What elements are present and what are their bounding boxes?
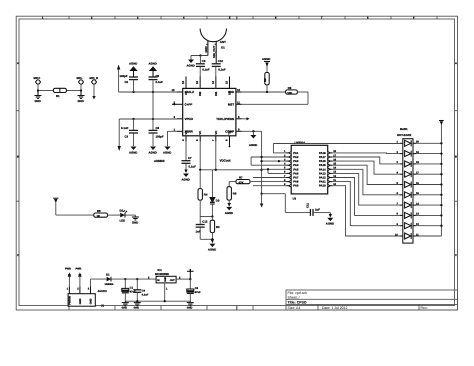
svg-text:IN2: IN2 bbox=[198, 91, 202, 96]
regulator VC1 body bbox=[156, 276, 176, 283]
junction VDCout bus bbox=[260, 169, 262, 171]
connector J1 JACK3 body bbox=[68, 294, 95, 307]
svg-text:GND: GND bbox=[79, 298, 82, 304]
antenna U1 body arc bbox=[200, 29, 226, 42]
IC U2 left pin stubs bbox=[172, 92, 183, 131]
power flag down under P3 bbox=[92, 84, 95, 99]
svg-text:C+PF: C+PF bbox=[185, 103, 193, 107]
BAR1 left pin stubs bbox=[400, 143, 403, 236]
svg-text:1uF: 1uF bbox=[315, 208, 320, 212]
capacitor C3 bbox=[121, 119, 138, 146]
svg-text:Sheet: /: Sheet: / bbox=[288, 296, 300, 300]
VC1 gnd pin wire bbox=[164, 283, 166, 301]
svg-text:PWR: PWR bbox=[76, 267, 82, 270]
capacitor C10 bbox=[212, 59, 226, 89]
svg-text:VDCout: VDCout bbox=[220, 159, 231, 163]
svg-text:AGND: AGND bbox=[163, 151, 171, 155]
svg-text:MIC+: MIC+ bbox=[34, 76, 41, 80]
ground GND under C1 bbox=[122, 301, 129, 305]
svg-text:R7: R7 bbox=[239, 176, 243, 180]
junction COMP ground drop bbox=[252, 130, 254, 132]
IC U2 body bbox=[183, 88, 236, 135]
svg-text:ANT: ANT bbox=[220, 40, 226, 44]
capacitor C11 bbox=[306, 203, 321, 216]
svg-text:C9: C9 bbox=[202, 59, 206, 63]
junction R3 bottom bbox=[211, 238, 213, 240]
svg-text:SIG_OUT: SIG_OUT bbox=[212, 45, 216, 58]
IC U2 pin names right bbox=[216, 90, 235, 133]
resistor R7 bbox=[229, 176, 250, 185]
IC U2 right pin stubs bbox=[236, 92, 242, 131]
svg-text:JACK3: JACK3 bbox=[98, 289, 108, 293]
junction C2 column bbox=[132, 91, 134, 93]
svg-text:R8: R8 bbox=[263, 78, 267, 82]
svg-text:0.1uF: 0.1uF bbox=[202, 68, 210, 72]
J1 pin numbers bbox=[67, 288, 90, 291]
IC U2 top pin numbers bbox=[181, 80, 229, 84]
svg-text:VS: VS bbox=[184, 131, 188, 135]
IC U3 body bbox=[291, 145, 328, 194]
sheet frame outer border bbox=[16, 16, 457, 310]
BAR1 right pin stubs bbox=[413, 143, 416, 236]
svg-text:PA9: PA9 bbox=[293, 184, 299, 188]
no-connect mark pin8 bbox=[229, 146, 231, 148]
BAR1 left pin numbers bbox=[395, 141, 399, 237]
capacitor C5 bbox=[149, 74, 164, 92]
svg-text:1nF: 1nF bbox=[196, 230, 201, 234]
svg-text:DOT-BAR2: DOT-BAR2 bbox=[397, 133, 412, 137]
frame zone ticks sides bbox=[16, 111, 457, 202]
IC U3 left pin stubs bbox=[287, 153, 292, 186]
junction pin6 bbox=[267, 168, 269, 170]
junction pin3 bus bbox=[260, 160, 262, 162]
svg-text:R9: R9 bbox=[288, 86, 292, 90]
J1 pin stubs bbox=[69, 286, 90, 293]
ground AGND above C5 bbox=[150, 67, 156, 77]
svg-text:0.1uF: 0.1uF bbox=[218, 68, 226, 72]
junction pin2 bus bbox=[260, 156, 262, 158]
capacitor C6 (column from XTAL2 wire through VPCO wire) bbox=[149, 92, 164, 146]
wire BAR right pins to bus bbox=[416, 143, 441, 236]
svg-text:AGND: AGND bbox=[326, 222, 334, 226]
svg-text:D2: D2 bbox=[120, 208, 124, 212]
svg-text:IN: IN bbox=[157, 279, 160, 282]
svg-text:GND: GND bbox=[132, 221, 138, 225]
IC U2 bottom pin stubs bbox=[186, 136, 230, 147]
svg-text:1K: 1K bbox=[97, 214, 101, 218]
junction C5 column bbox=[152, 91, 154, 93]
svg-text:100pF: 100pF bbox=[156, 135, 164, 139]
title block bbox=[286, 290, 458, 310]
svg-text:VPCO: VPCO bbox=[185, 117, 194, 121]
svg-text:AGND: AGND bbox=[149, 62, 157, 66]
svg-text:15: 15 bbox=[195, 80, 199, 84]
IC U2 bottom pin numbers bbox=[181, 139, 229, 141]
wire C12 bottom to R3 bottom bbox=[200, 238, 212, 240]
connector pin P3 bbox=[91, 80, 97, 84]
svg-text:R6: R6 bbox=[233, 191, 237, 195]
ground AGND at COMP bbox=[249, 131, 257, 147]
svg-text:AGND: AGND bbox=[129, 62, 137, 66]
BAR1 right pin numbers bbox=[416, 141, 419, 237]
wire U3 pin9 row bbox=[253, 185, 287, 187]
svg-text:AGND: AGND bbox=[187, 64, 195, 68]
junction C4 bbox=[136, 278, 138, 280]
antenna pin SIG_OUT bbox=[212, 42, 216, 64]
connector pin P1 bbox=[35, 80, 41, 84]
junction R8 bottom bbox=[266, 91, 268, 93]
svg-text:12: 12 bbox=[211, 80, 215, 84]
svg-text:MST: MST bbox=[228, 103, 235, 107]
svg-text:PWR: PWR bbox=[65, 267, 71, 270]
wire P1 to R1 to P2 bbox=[38, 84, 81, 90]
svg-text:R3: R3 bbox=[216, 225, 220, 229]
wire U3 p15 to BAR row5 bbox=[332, 165, 399, 184]
wire XERR pin to ground bbox=[168, 131, 178, 146]
svg-text:J1: J1 bbox=[101, 304, 105, 308]
junction VDCout left bbox=[199, 169, 201, 171]
capacitor C12 bbox=[196, 217, 208, 240]
ground AGND for antenna bbox=[187, 56, 195, 68]
ground rail wire bbox=[125, 300, 190, 302]
svg-text:PWRIN: PWRIN bbox=[68, 296, 71, 305]
svg-text:100pF: 100pF bbox=[120, 74, 128, 78]
wire U3 p14 to BAR row6 bbox=[332, 169, 399, 195]
svg-text:13: 13 bbox=[172, 88, 176, 92]
ground AGND below R6 bbox=[225, 203, 233, 215]
svg-text:0.1uF: 0.1uF bbox=[121, 126, 129, 130]
power flag PWR2 bbox=[76, 267, 82, 286]
wire VPCO row bbox=[119, 119, 177, 146]
regulator VC1 pin names bbox=[157, 276, 175, 282]
VC1 output wire bbox=[176, 278, 190, 280]
junction varactor bottom bbox=[211, 215, 213, 217]
svg-text:C10: C10 bbox=[218, 59, 224, 63]
junction at P2 bbox=[80, 89, 82, 91]
svg-text:AGND: AGND bbox=[249, 143, 257, 147]
svg-text:Date: 1 Jul 2012: Date: 1 Jul 2012 bbox=[322, 306, 348, 310]
svg-text:LED: LED bbox=[120, 218, 126, 222]
BAR1 body bbox=[403, 139, 413, 243]
power flag PWR1 bbox=[65, 267, 71, 286]
capacitor C9 bbox=[196, 56, 210, 89]
power flag down below bus bbox=[260, 194, 263, 208]
ground AGND under C6 bbox=[149, 147, 157, 155]
svg-text:0.1uF: 0.1uF bbox=[189, 164, 197, 168]
svg-text:10K: 10K bbox=[287, 91, 292, 95]
wire flag to R5 bbox=[56, 214, 94, 216]
svg-text:10: 10 bbox=[225, 80, 229, 84]
capacitor C2 bbox=[120, 74, 139, 92]
wire antenna gnd to AGND bbox=[191, 55, 208, 57]
J1 pin names bbox=[68, 296, 92, 305]
junctions on anode bus bbox=[440, 142, 442, 227]
svg-text:SB: SB bbox=[228, 91, 232, 95]
svg-text:C7: C7 bbox=[188, 156, 192, 160]
svg-text:C6: C6 bbox=[156, 126, 160, 130]
wire U3 pin3 row bbox=[262, 160, 287, 162]
svg-text:16: 16 bbox=[181, 80, 185, 84]
svg-text:MC33269D: MC33269D bbox=[155, 272, 169, 276]
power flag up at x118 bbox=[117, 65, 120, 93]
resistor R8 bbox=[263, 73, 269, 93]
svg-text:C5: C5 bbox=[156, 74, 160, 78]
wire R5 to D2 bbox=[108, 214, 121, 216]
connector pin P2 bbox=[78, 80, 84, 84]
svg-text:47uF: 47uF bbox=[195, 291, 201, 294]
IC U2 top pin stubs bbox=[186, 77, 230, 89]
ground AGND below R3 bbox=[208, 239, 216, 251]
title block text bbox=[288, 291, 428, 310]
svg-text:X1: X1 bbox=[184, 91, 188, 95]
svg-text:A: A bbox=[17, 62, 19, 65]
svg-text:A: A bbox=[455, 62, 457, 65]
svg-text:Rev:: Rev: bbox=[421, 306, 428, 310]
wire U3 pin2 row bbox=[251, 156, 286, 158]
capacitor C7 bbox=[182, 142, 197, 170]
svg-text:GND: GND bbox=[122, 307, 128, 310]
svg-text:D1: D1 bbox=[106, 272, 110, 276]
ground AGND above C2 bbox=[131, 67, 137, 77]
svg-text:A06363: A06363 bbox=[154, 159, 165, 163]
svg-text:GND: GND bbox=[35, 99, 41, 103]
svg-text:U1: U1 bbox=[221, 46, 225, 50]
svg-text:U3: U3 bbox=[293, 197, 297, 201]
junction VDCout mid bbox=[215, 169, 217, 171]
wire VDCout row bbox=[200, 142, 261, 170]
ground GND under P1 bbox=[35, 91, 42, 99]
IC U2 right pin numbers bbox=[237, 88, 241, 131]
frame zone ticks bottom bbox=[69, 306, 253, 311]
svg-text:Size: A4: Size: A4 bbox=[288, 306, 301, 310]
frame zone letters bbox=[17, 17, 457, 257]
power flag top of bus bbox=[439, 121, 444, 126]
ground AGND under C7 bbox=[182, 170, 190, 182]
junction C6 column bbox=[152, 118, 154, 120]
wire U3 p12 to BAR row8 bbox=[332, 178, 399, 216]
wire U3 pin4 loop bbox=[251, 157, 286, 165]
capacitor C8 polarized bbox=[187, 279, 201, 301]
IC U3 left pin numbers bbox=[284, 150, 286, 186]
wire XTAL2 row bbox=[119, 91, 177, 93]
svg-text:C12: C12 bbox=[202, 220, 208, 224]
svg-text:0.1uF: 0.1uF bbox=[142, 293, 149, 296]
pin arrow unconnected pin2 bbox=[172, 103, 175, 106]
IC U3 right pin numbers bbox=[333, 150, 336, 186]
IC U2 pin names left bbox=[185, 90, 195, 133]
svg-text:MIC_R: MIC_R bbox=[90, 76, 99, 80]
svg-text:MIC-: MIC- bbox=[77, 76, 83, 80]
svg-text:File: cpd.sch: File: cpd.sch bbox=[288, 291, 308, 295]
wire VDD row bbox=[242, 91, 286, 93]
frame zone ticks top bbox=[69, 16, 437, 20]
IC U2 pin names top/bottom bbox=[184, 91, 232, 96]
wire COMP vertical bus bbox=[261, 131, 263, 193]
wire R7 to U3 pin8 bbox=[250, 181, 287, 183]
wire U3 p11 to BAR row9 bbox=[332, 182, 399, 226]
wire J1 pin3 to D1 bbox=[91, 279, 107, 286]
wire D2 to GND bbox=[125, 215, 135, 217]
junction rail VC1 bbox=[164, 300, 166, 302]
svg-text:B: B bbox=[17, 156, 19, 159]
resistor R9 bbox=[286, 86, 298, 95]
wire U3 p16 to BAR row4 bbox=[332, 161, 399, 174]
junction pin3 mid bbox=[278, 160, 280, 162]
capacitor C1 polarized bbox=[122, 279, 136, 301]
svg-text:C11: C11 bbox=[306, 203, 310, 208]
BAR1 LEDs bbox=[405, 140, 412, 239]
ground AGND right of C11 bbox=[326, 212, 334, 225]
diode D1 bbox=[105, 272, 114, 286]
svg-text:1N4004: 1N4004 bbox=[105, 283, 114, 286]
resistor R6 bbox=[227, 183, 237, 203]
resistor R4 bbox=[198, 170, 208, 217]
ground GND under C8 bbox=[187, 301, 194, 305]
svg-text:GND: GND bbox=[134, 307, 140, 310]
wire R9 to MST pin bbox=[242, 92, 309, 104]
wire U3 pin5 from VDCout bbox=[262, 168, 287, 170]
svg-text:C: C bbox=[17, 254, 19, 257]
wire C11 to AGND bbox=[313, 211, 330, 213]
sheet frame inner border bbox=[19, 19, 455, 306]
wire U3 p18 to BAR row2 bbox=[332, 152, 399, 155]
junction C9 top bbox=[199, 54, 201, 56]
IC U3 right pin names bbox=[319, 151, 326, 188]
svg-text:TE: TE bbox=[228, 131, 232, 135]
wire U3 p13 to BAR row7 bbox=[332, 173, 399, 205]
wire bus to C11 bbox=[262, 194, 310, 213]
wire D1 to VC1 bbox=[111, 278, 156, 280]
svg-text:Title: CPSD: Title: CPSD bbox=[288, 300, 307, 304]
svg-text:11: 11 bbox=[237, 100, 240, 104]
svg-text:OUT: OUT bbox=[170, 279, 175, 282]
antenna pin GND bbox=[204, 40, 208, 55]
svg-text:C3: C3 bbox=[125, 135, 129, 139]
svg-text:BAR1: BAR1 bbox=[400, 127, 408, 131]
svg-text:IN1: IN1 bbox=[214, 91, 218, 96]
resistor R1 bbox=[53, 88, 66, 98]
IC U3 left pin names bbox=[293, 151, 299, 188]
IC U2 left pin numbers bbox=[172, 88, 176, 131]
svg-text:C: C bbox=[455, 254, 457, 257]
wire COMP pin to bus bbox=[242, 130, 262, 132]
svg-text:0.1uF: 0.1uF bbox=[156, 80, 164, 84]
ground GND under P2 bbox=[78, 91, 85, 99]
ground AGND for XERR bbox=[163, 147, 171, 155]
IC U3 left pin input marks bbox=[289, 152, 291, 187]
LED D2 bbox=[120, 208, 128, 222]
wire R4 bottom to varactor column bbox=[200, 216, 212, 218]
svg-text:AGND: AGND bbox=[129, 151, 137, 155]
wire U3 pin1 loop over top to BAR pin1 bbox=[273, 144, 399, 153]
svg-text:PA10: PA10 bbox=[319, 184, 326, 188]
capacitor C4 bbox=[133, 279, 149, 301]
wire TCKL pin with arrow bbox=[242, 117, 250, 120]
svg-text:B: B bbox=[455, 156, 457, 159]
svg-text:VC: VC bbox=[198, 131, 202, 135]
svg-text:D3: D3 bbox=[216, 199, 220, 203]
power VCC bar symbol bbox=[187, 269, 194, 279]
junction VC1 output bbox=[189, 278, 191, 280]
svg-text:C2: C2 bbox=[125, 80, 129, 84]
junction C3 column bbox=[132, 118, 134, 120]
varactor diode D3 bbox=[210, 170, 220, 217]
junction rail C4 bbox=[136, 300, 138, 302]
svg-text:TCKL/PWDN: TCKL/PWDN bbox=[216, 117, 234, 121]
svg-text:GND: GND bbox=[204, 46, 208, 52]
resistor R3 bbox=[210, 217, 220, 240]
IC U3 right pin output marks bbox=[328, 152, 330, 187]
ground GND after D2 bbox=[132, 217, 139, 220]
ground GND under C4 bbox=[134, 301, 141, 305]
svg-text:LM3914: LM3914 bbox=[295, 141, 306, 145]
junction C1 bbox=[124, 278, 126, 280]
wire U3 pin7 row bbox=[253, 177, 287, 179]
svg-text:R5: R5 bbox=[97, 209, 101, 213]
svg-text:12: 12 bbox=[237, 88, 241, 92]
ground AGND under C3 bbox=[129, 147, 137, 155]
svg-text:47K: 47K bbox=[239, 180, 244, 184]
wire U3 p10 to BAR row10 bbox=[332, 186, 399, 236]
power flag down at x119 bbox=[118, 146, 121, 151]
junction at P1 bbox=[37, 89, 39, 91]
junction bus bottom bbox=[260, 193, 262, 195]
svg-text:GND: GND bbox=[89, 298, 92, 304]
svg-text:AGND: AGND bbox=[262, 57, 270, 61]
svg-text:AGND: AGND bbox=[149, 151, 157, 155]
svg-text:AGND: AGND bbox=[182, 178, 190, 182]
wire U3 pin6 row bbox=[268, 169, 287, 173]
svg-text:GND: GND bbox=[164, 276, 167, 281]
svg-text:AGND: AGND bbox=[208, 248, 216, 252]
power VDD flag bbox=[262, 57, 270, 73]
resistor R5 bbox=[94, 209, 108, 218]
svg-text:GND: GND bbox=[78, 99, 84, 103]
svg-text:R1: R1 bbox=[56, 94, 60, 98]
power flag up for LED row bbox=[53, 198, 58, 215]
wire anode bus vertical bbox=[440, 125, 442, 237]
IC U3 right pin stubs bbox=[328, 153, 333, 186]
wire U3 p17 to BAR row3 bbox=[332, 157, 399, 164]
svg-text:GND: GND bbox=[187, 306, 193, 309]
svg-text:AGND: AGND bbox=[225, 211, 233, 215]
svg-text:R4: R4 bbox=[204, 192, 208, 196]
